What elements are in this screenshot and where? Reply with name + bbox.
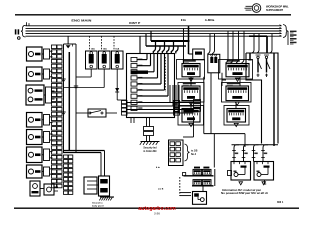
svg-text:body panel: body panel bbox=[92, 205, 104, 207]
svg-text:363 1: 363 1 bbox=[277, 201, 284, 204]
svg-text:Jct B: Jct B bbox=[158, 187, 164, 190]
svg-text:No.2: No.2 bbox=[191, 154, 197, 156]
svg-text:15A: 15A bbox=[103, 48, 107, 51]
svg-text:INST P: INST P bbox=[129, 21, 140, 25]
svg-text:Ground to: Ground to bbox=[92, 202, 103, 205]
svg-text:to J/B: to J/B bbox=[191, 150, 198, 153]
svg-text:WORKSHOP MNL: WORKSHOP MNL bbox=[266, 5, 289, 9]
svg-text:ENG MAIN: ENG MAIN bbox=[71, 18, 91, 22]
svg-text:SUPPLEMENT: SUPPLEMENT bbox=[266, 9, 284, 12]
svg-text:in Cmbn Mtr: in Cmbn Mtr bbox=[143, 150, 157, 153]
svg-text:15A: 15A bbox=[115, 48, 119, 51]
svg-text:4 dr: 4 dr bbox=[156, 166, 160, 169]
svg-text:No powered B/W pwr Mtr w/ aft: No powered B/W pwr Mtr w/ aft dr bbox=[221, 192, 268, 195]
svg-text:A-MOa: A-MOa bbox=[205, 18, 215, 22]
svg-text:Security Ind: Security Ind bbox=[143, 147, 157, 150]
svg-text:15A: 15A bbox=[91, 48, 95, 51]
svg-text:2-26: 2-26 bbox=[154, 212, 160, 216]
